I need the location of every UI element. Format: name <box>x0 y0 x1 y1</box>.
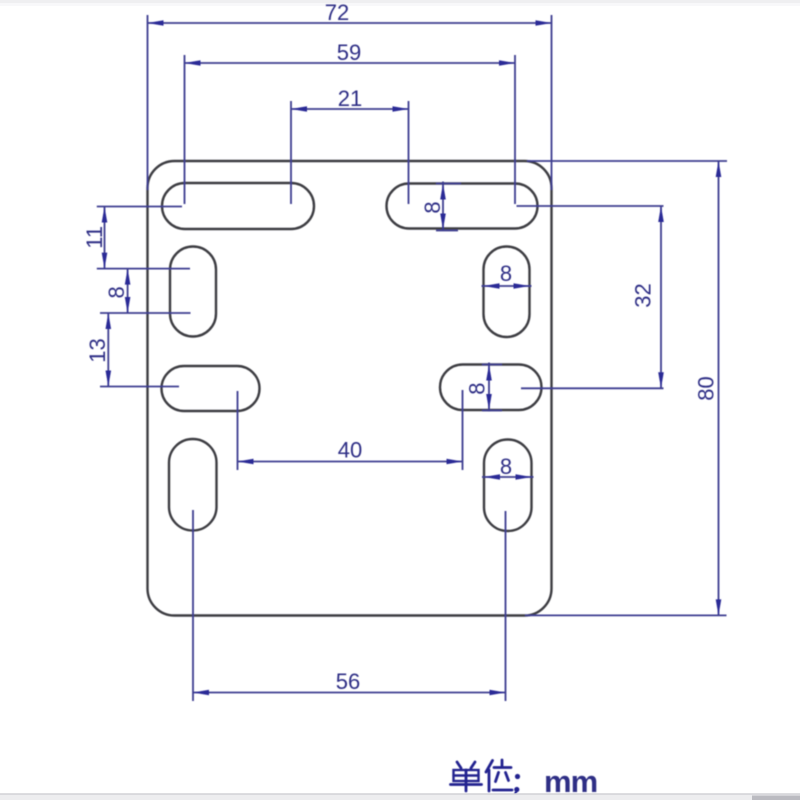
dimension 40 extension left <box>237 391 239 470</box>
dimension 8 slot S2 tick bottom <box>436 230 458 232</box>
dimension 32 extension bottom <box>521 387 664 389</box>
dimension 13 arrow up <box>106 313 112 329</box>
dimension 8 left tick bottom <box>100 312 191 314</box>
dimension 72 arrow left <box>148 20 164 26</box>
svg-text:32: 32 <box>631 283 656 307</box>
dimension 8 slot S6 arrow up <box>486 365 492 381</box>
dimension 11 tick bottom <box>97 268 190 270</box>
dimension 13 line <box>107 313 109 387</box>
dimension 8 left line <box>127 269 129 313</box>
dimension 32 line <box>660 206 662 388</box>
dimension 21 extension left <box>290 101 292 204</box>
dimension 8 slot S6 tick bottom <box>482 410 502 412</box>
bottom gray strip <box>0 795 800 800</box>
dimension 11 arrow down <box>102 253 108 269</box>
plate outline <box>148 161 552 616</box>
svg-text:72: 72 <box>325 0 349 25</box>
slot S5 middle-left horizontal <box>162 366 260 411</box>
svg-text:59: 59 <box>337 40 361 65</box>
dimension 8 slot S2 arrow down <box>440 214 446 230</box>
svg-text:8: 8 <box>464 382 489 394</box>
slot S3 upper-left vertical <box>170 247 216 337</box>
dimension 56 line <box>193 692 506 694</box>
svg-text:8: 8 <box>104 286 129 298</box>
slot S1 top-left horizontal <box>162 183 314 229</box>
unit label hanzi wei <box>486 760 512 791</box>
dimension 8 slot S2 arrow up <box>440 184 446 200</box>
svg-text:80: 80 <box>694 376 719 400</box>
dimension 40 arrow right <box>447 459 463 465</box>
dimension 13 tick bottom <box>100 386 179 388</box>
dimension 8 slot S6 tick top <box>482 364 502 366</box>
dimension 8 left arrow up <box>125 269 131 285</box>
dimension 32 arrow down <box>658 372 664 388</box>
dimension 40 arrow left <box>238 459 254 465</box>
dimension 11 line <box>104 207 106 269</box>
unit label fullwidth semicolon <box>514 774 520 796</box>
dimension 80 arrow up <box>716 161 722 177</box>
dimension 8 slot S4 arrow right <box>514 283 530 289</box>
dimension 21 extension right <box>408 101 410 204</box>
svg-text:21: 21 <box>338 86 362 111</box>
svg-text:40: 40 <box>338 438 362 463</box>
dimension 8 slot S4 line <box>482 285 532 287</box>
slot S4 upper-right vertical <box>484 247 530 338</box>
dimension 8 slot S4 arrow left <box>484 283 500 289</box>
dimension 8 slot S8 line <box>482 476 534 478</box>
svg-text:8: 8 <box>500 261 512 286</box>
dimension 80 arrow down <box>716 599 722 615</box>
dimension 72 arrow right <box>536 20 552 26</box>
dimension 8 slot S2 line <box>442 182 444 232</box>
dimension 59 line <box>185 62 516 64</box>
dimension 59 extension left <box>184 55 186 204</box>
svg-text:8: 8 <box>500 454 512 479</box>
dimension 72 line <box>148 22 552 24</box>
top gray band <box>0 0 800 3</box>
dimension 13 arrow down <box>106 371 112 387</box>
svg-text:8: 8 <box>420 201 445 213</box>
dimension 11 arrow up <box>102 207 108 223</box>
unit label hanzi dan <box>451 762 482 791</box>
dimension 80 extension top <box>527 160 727 162</box>
dimension 11 tick top <box>97 206 182 208</box>
svg-text:11: 11 <box>82 226 107 249</box>
slot S8 lower-right vertical <box>484 440 532 532</box>
dimension 21 line <box>291 108 409 110</box>
dimension 8 slot S8 arrow right <box>516 474 532 480</box>
dimension 32 arrow up <box>658 206 664 222</box>
dimension 40 line <box>238 461 463 463</box>
dimension 56 extension left <box>192 510 194 701</box>
dimension 21 arrow right <box>393 106 409 112</box>
dimension 21 arrow left <box>291 106 307 112</box>
slot S2 top-right horizontal <box>387 184 538 229</box>
dimension 59 arrow right <box>499 60 515 66</box>
svg-text:13: 13 <box>85 338 110 362</box>
slot S7 lower-left vertical <box>169 439 217 531</box>
dimension 8 slot S8 arrow left <box>484 474 500 480</box>
dimension 80 line <box>718 161 720 615</box>
bottom gray line <box>0 793 800 795</box>
dimension 72 extension left <box>147 15 149 190</box>
bottom right dark patch <box>752 796 800 800</box>
dimension 8 slot S6 arrow down <box>486 394 492 410</box>
dimension 8 slot S2 tick top <box>436 183 461 185</box>
dimension 32 extension top <box>517 205 664 207</box>
dimension 59 extension right <box>514 55 516 204</box>
dimension 56 extension right <box>505 511 507 701</box>
svg-text:56: 56 <box>336 669 360 694</box>
dimension 40 extension right <box>462 390 464 470</box>
dimension 8 left arrow down <box>125 297 131 313</box>
slot S6 middle-right horizontal <box>440 365 542 411</box>
dimension 59 arrow left <box>185 60 201 66</box>
dimension 56 arrow left <box>193 690 209 696</box>
dimension 72 extension right <box>551 15 553 190</box>
dimension 80 extension bottom <box>525 614 727 616</box>
dimension 56 arrow right <box>490 690 506 696</box>
dimension 8 slot S6 line <box>488 363 490 412</box>
